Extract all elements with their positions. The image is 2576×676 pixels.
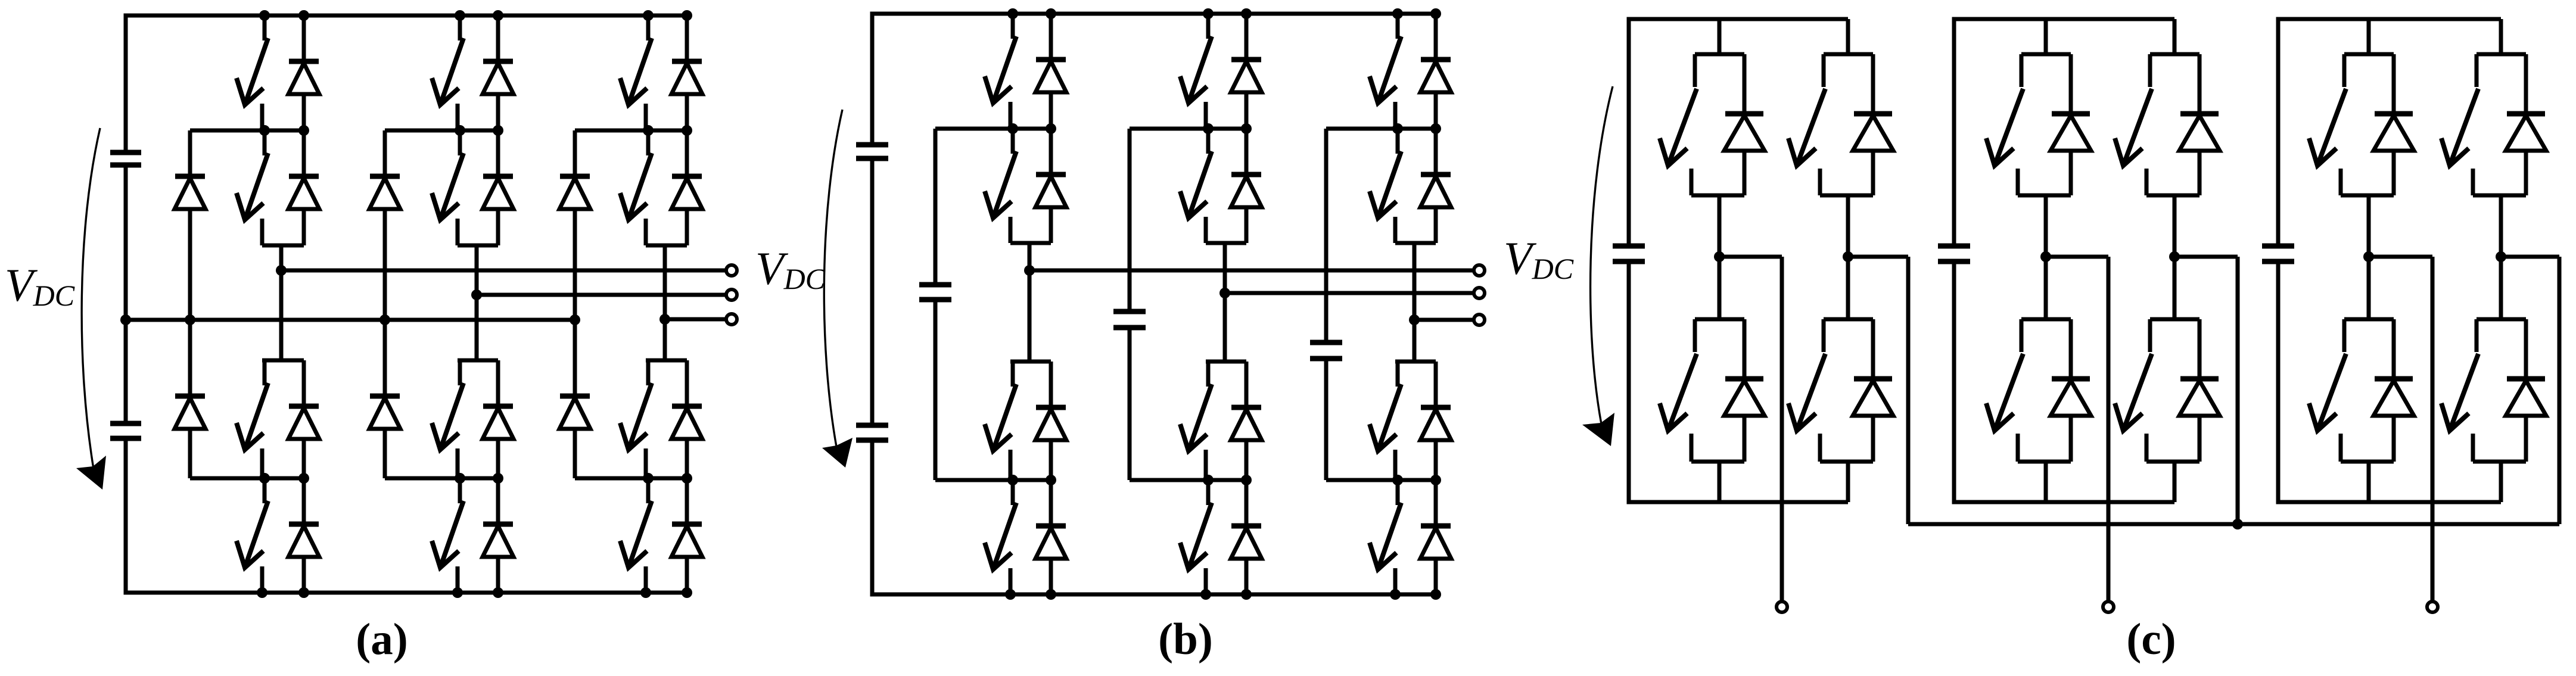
diode DFC2 (b, antiparallel to QC2) xyxy=(1420,129,1451,243)
wire: (c) module 3 leg A upper cell top cup xyxy=(2344,52,2394,57)
clamp diode DA5 (a leg A upper clamp) xyxy=(175,130,206,320)
wire: (c) module 1 leg B bottom stub xyxy=(1846,462,1850,502)
wire: (a) leg C phase column xyxy=(663,245,667,360)
wire: (c) module 3 leg B lower cell top cup xyxy=(2477,317,2526,322)
wire: (a) leg C lower cell top cup xyxy=(646,359,687,363)
node: (a) neutral tap leg C xyxy=(570,314,580,325)
node: (a) leg C top rail tap (switch col) xyxy=(643,10,654,21)
diode DB3 (a, antiparallel to SB3) xyxy=(483,360,514,478)
node: (b) leg B upper junction (diode col) xyxy=(1241,123,1252,134)
wire: (a) phase C output line xyxy=(665,317,725,322)
wire: (c) module 3 leg A bottom stub xyxy=(2367,462,2371,502)
wire: (c) module 2 leg A upper cell top cup xyxy=(2021,52,2071,57)
wire: (b) leg B upper cell bottom cup xyxy=(1206,241,1246,245)
diode DC3 (a, antiparallel to SC3) xyxy=(671,360,702,478)
switch QA1 (b leg A outer upper) xyxy=(985,14,1016,129)
wire: (c) module 3 leg B upper cell top cup xyxy=(2477,52,2526,57)
wire: (c) module 3 top rail xyxy=(2278,17,2501,21)
wire: panel (a) bottom DC rail xyxy=(126,591,687,595)
wire: (c) module 1 leg A bottom stub xyxy=(1718,462,1722,502)
switch T2B1 (c module 2 leg B upper) xyxy=(2115,54,2152,195)
node: (b) leg C lower junction (switch col) xyxy=(1392,475,1403,485)
node: (b) leg B lower junction (switch col) xyxy=(1203,475,1214,485)
wire: (c) module 1 leg A lower cell bottom cup xyxy=(1691,460,1744,464)
switch SB1 (a leg B outer upper) xyxy=(432,15,463,130)
node: (b) phase B output node xyxy=(1219,288,1230,298)
diode DH1A1 (c, antiparallel to T1A1) xyxy=(1724,54,1765,195)
node: (a) leg B SB3-SB4 junction (diode col) xyxy=(493,473,503,484)
node: neutral at left DC bus (a) xyxy=(120,314,131,325)
wire: (c) module 3 return vertical xyxy=(2558,257,2562,524)
node: (b) leg C bottom rail tap (switch col) xyxy=(1390,589,1401,600)
switch SA2 (a leg A inner upper) xyxy=(237,130,268,245)
diode DA1 (a, antiparallel to SA1) xyxy=(288,15,319,130)
diode DH2B2 (c, antiparallel to T2B2) xyxy=(2179,319,2220,462)
VDC arrow (b) xyxy=(822,110,853,468)
wire: (c) module 3 leg A top stub xyxy=(2367,19,2371,54)
node: (c) module 1 leg A midpoint xyxy=(1714,251,1725,262)
terminal: phase A output (c) xyxy=(1777,602,1787,612)
wire: (c) module 1 left rail lower segment xyxy=(1627,261,1631,504)
node: (b) phase C output node xyxy=(1409,314,1420,325)
switch SB3 (a leg B inner lower) xyxy=(432,360,463,478)
diode DFB1 (b, antiparallel to QB1) xyxy=(1231,14,1262,129)
node: (a) phase A output node xyxy=(276,265,287,276)
node: (a) leg C bottom rail tap (diode col) xyxy=(682,587,692,598)
node: (b) leg A lower junction (switch col) xyxy=(1007,475,1018,485)
node: (a) leg C SC1-SC2 junction (diode col) xyxy=(682,125,692,136)
diode DFB4 (b, antiparallel to QB4) xyxy=(1231,480,1262,594)
node: (a) neutral tap leg A xyxy=(185,314,195,325)
diode DFA1 (b, antiparallel to QA1) xyxy=(1035,14,1066,129)
wire: (c) module 2 leg B top stub xyxy=(2173,19,2177,54)
node: (a) phase B output node xyxy=(471,289,482,300)
flying capacitor CFA (b leg A) xyxy=(919,285,951,300)
diode DH1B2 (c, antiparallel to T1B2) xyxy=(1853,319,1893,462)
wire: (c) module 2 bottom rail xyxy=(1954,500,2174,504)
wire: (c) module 3 leg A lower cell top cup xyxy=(2344,317,2394,322)
switch SB2 (a leg B inner upper) xyxy=(432,130,463,245)
switch SC2 (a leg C inner upper) xyxy=(620,130,652,245)
wire: (c) module 2 leg B mid column xyxy=(2173,195,2177,319)
diode DH2A2 (c, antiparallel to T2A2) xyxy=(2051,319,2091,462)
wire: (c) module 1 leg B mid column xyxy=(1846,195,1850,319)
diode DC4 (a, antiparallel to SC4) xyxy=(671,478,702,593)
wire: (c) module 3 return tap horizontal xyxy=(2501,255,2559,259)
wire: (b) leg A lower cell top cup xyxy=(1010,360,1051,364)
clamp diode DB6 (a leg B lower clamp) xyxy=(369,320,400,478)
switch T3B1 (c module 3 leg B upper) xyxy=(2441,54,2478,195)
node: (b) leg C upper junction (switch col) xyxy=(1392,123,1403,134)
node: (a) leg A SA1-SA2 junction (switch col) xyxy=(259,125,270,136)
node: (b) leg C upper junction (diode col) xyxy=(1430,123,1441,134)
diode DB4 (a, antiparallel to SB4) xyxy=(483,478,514,593)
wire: (c) module 3 leg B top stub xyxy=(2499,19,2503,54)
node: (b) leg B bottom rail tap (switch col) xyxy=(1200,589,1211,600)
node: (a) leg C SC3-SC4 junction (switch col) xyxy=(643,473,654,484)
switch SC1 (a leg C outer upper) xyxy=(620,15,652,130)
wire: panel (a) left DC bus middle segment xyxy=(124,165,128,423)
wire: (a) leg A lower junction link xyxy=(190,476,304,481)
wire: (b) phase A output line xyxy=(1029,269,1473,273)
wire: (c) module 1 leg B lower cell top cup xyxy=(1824,317,1873,322)
wire: (b) leg A upper junction link xyxy=(935,127,1051,131)
VDC arrow (a) xyxy=(76,128,106,490)
diode DC1 (a, antiparallel to SC1) xyxy=(671,15,702,130)
wire: (c) module 3 left rail upper segment xyxy=(2276,17,2281,247)
diode DFB2 (b, antiparallel to QB2) xyxy=(1231,129,1262,243)
wire: (a) leg B upper junction link xyxy=(385,129,498,133)
wire: (c) module 1 left rail upper segment xyxy=(1627,17,1631,247)
diode DFA4 (b, antiparallel to QA4) xyxy=(1035,480,1066,594)
wire: (c) module 2 leg B upper cell bottom cup xyxy=(2146,194,2199,198)
wire: (b) leg B upper junction link xyxy=(1130,127,1246,131)
svg-text:(c): (c) xyxy=(2126,615,2176,664)
node: (b) leg B top rail tap (switch col) xyxy=(1203,8,1214,19)
node: (a) leg B SB3-SB4 junction (switch col) xyxy=(455,473,465,484)
wire: (c) module 1 leg B top stub xyxy=(1846,19,1850,54)
switch T2B2 (c module 2 leg B lower) xyxy=(2115,319,2152,462)
wire: (a) leg B lower cell top cup xyxy=(458,359,498,363)
wire: (a) leg A lower cell top cup xyxy=(262,359,304,363)
switch QA3 (b leg A inner lower) xyxy=(985,362,1016,480)
node: (b) leg A bottom rail tap (diode col) xyxy=(1046,589,1056,600)
wire: (c) module 2 leg A lower cell top cup xyxy=(2021,317,2071,322)
capacitor C4 (b, lower DC-link) xyxy=(856,425,888,440)
wire: (b) leg B flying-capacitor branch upper segment xyxy=(1128,129,1132,311)
wire: (a) leg C upper junction link xyxy=(575,129,687,133)
clamp diode DA6 (a leg A lower clamp) xyxy=(175,320,206,478)
wire: (c) module 2 leg B lower cell top cup xyxy=(2150,317,2199,322)
wire: (c) module 3 leg A upper cell bottom cup xyxy=(2341,194,2394,198)
wire: (c) module 1 leg B upper cell bottom cup xyxy=(1820,194,1873,198)
wire: (c) module 1 top rail xyxy=(1629,17,1848,21)
wire: (c) module 1 output tap horizontal xyxy=(1719,255,1782,259)
wire: panel (b) left DC bus middle segment xyxy=(870,158,875,425)
wire: (c) module 2 leg A upper cell bottom cup xyxy=(2018,194,2071,198)
wire: (b) leg C flying-capacitor branch upper segment xyxy=(1324,129,1329,342)
wire: (c) module 2 output vertical xyxy=(2107,257,2111,600)
wire: (c) module 2 top rail xyxy=(1954,17,2174,21)
node: (b) leg A upper junction (diode col) xyxy=(1046,123,1056,134)
node: (b) leg B bottom rail tap (diode col) xyxy=(1241,589,1252,600)
node: (b) leg B upper junction (switch col) xyxy=(1203,123,1214,134)
switch SA4 (a leg A outer lower) xyxy=(237,478,268,593)
wire: (c) module 3 leg B lower cell bottom cup xyxy=(2473,460,2526,464)
node: (a) neutral tap leg B xyxy=(379,314,390,325)
node: (a) leg C top rail tap (diode col) xyxy=(682,10,692,21)
diode DC2 (a, antiparallel to SC2) xyxy=(671,130,702,245)
diode DH3A2 (c, antiparallel to T3A2) xyxy=(2373,319,2414,462)
node: (a) leg A bottom rail tap (diode col) xyxy=(298,587,309,598)
switch SB4 (a leg B outer lower) xyxy=(432,478,463,593)
svg-text:(b): (b) xyxy=(1158,615,1213,664)
wire: (c) module 3 output vertical xyxy=(2431,257,2435,600)
clamp diode DC6 (a leg C lower clamp) xyxy=(559,320,590,478)
node: (b) leg C bottom rail tap (diode col) xyxy=(1430,589,1441,600)
capacitor CH3 (c module 3 DC-link) xyxy=(2262,246,2294,261)
switch T3A2 (c module 3 leg A lower) xyxy=(2309,319,2346,462)
wire: (b) leg A phase column xyxy=(1028,243,1032,362)
node: (b) leg A top rail tap (diode col) xyxy=(1046,8,1056,19)
terminal: phase A output (b) xyxy=(1474,265,1485,276)
flying capacitor CFB (b leg B) xyxy=(1113,311,1146,328)
switch T3A1 (c module 3 leg A upper) xyxy=(2309,54,2346,195)
terminal: phase C output (b) xyxy=(1474,314,1485,325)
diode DA3 (a, antiparallel to SA3) xyxy=(288,360,319,478)
terminal: phase B output (a) xyxy=(726,289,737,300)
node: (a) leg A SA3-SA4 junction (diode col) xyxy=(298,473,309,484)
diode DFB3 (b, antiparallel to QB3) xyxy=(1231,362,1262,480)
node: (b) leg A upper junction (switch col) xyxy=(1007,123,1018,134)
wire: (b) leg A flying-capacitor branch upper segment xyxy=(934,129,938,285)
switch T1A2 (c module 1 leg A lower) xyxy=(1660,319,1697,462)
wire: (c) module 1 leg A mid column xyxy=(1718,195,1722,319)
diode DFA2 (b, antiparallel to QA2) xyxy=(1035,129,1066,243)
switch T3B2 (c module 3 leg B lower) xyxy=(2441,319,2478,462)
terminal: phase B output (c) xyxy=(2103,602,2114,612)
switch T2A2 (c module 2 leg A lower) xyxy=(1986,319,2023,462)
switch QA4 (b leg A outer lower) xyxy=(985,480,1016,594)
wire: (b) leg B phase column xyxy=(1223,243,1227,362)
diode DH3A1 (c, antiparallel to T3A1) xyxy=(2373,54,2414,195)
wire: (c) module 3 leg B upper cell bottom cup xyxy=(2473,194,2526,198)
diode DFC4 (b, antiparallel to QC4) xyxy=(1420,480,1451,594)
wire: (b) leg A lower junction link xyxy=(935,478,1051,482)
node: (a) leg C SC1-SC2 junction (switch col) xyxy=(643,125,654,136)
wire: (a) phase A output line xyxy=(281,269,725,273)
wire: (b) leg C flying-capacitor branch lower segment xyxy=(1324,359,1329,480)
wire: panel (b) bottom DC rail xyxy=(872,593,1436,597)
wire: (c) module 3 leg B mid column xyxy=(2499,195,2503,319)
wire: (c) module 2 left rail upper segment xyxy=(1952,17,1956,247)
wire: panel (b) top DC rail xyxy=(872,12,1436,16)
wire: (c) module 1 return vertical xyxy=(1906,257,1911,524)
wire: (c) module 2 leg A lower cell bottom cup xyxy=(2018,460,2071,464)
svg-text:(a): (a) xyxy=(356,615,407,664)
switch QB4 (b leg B outer lower) xyxy=(1180,480,1212,594)
node: (a) leg A SA3-SA4 junction (switch col) xyxy=(259,473,270,484)
node: (a) leg C SC3-SC4 junction (diode col) xyxy=(682,473,692,484)
wire: (b) leg B lower cell top cup xyxy=(1206,360,1246,364)
switch QB1 (b leg B outer upper) xyxy=(1180,14,1212,129)
wire: (c) module 2 return tap horizontal xyxy=(2174,255,2238,259)
wire: (b) leg A flying-capacitor branch lower segment xyxy=(934,300,938,480)
wire: (c) module 1 leg A upper cell bottom cup xyxy=(1691,194,1744,198)
terminal: phase C output (c) xyxy=(2427,602,2438,612)
node: (a) leg B SB1-SB2 junction (switch col) xyxy=(455,125,465,136)
wire: (b) leg B flying-capacitor branch lower segment xyxy=(1128,328,1132,480)
wire: (a) leg A upper cell bottom cup xyxy=(262,244,304,248)
node: (a) leg A top rail tap (switch col) xyxy=(259,10,270,21)
diode DA4 (a, antiparallel to SA4) xyxy=(288,478,319,593)
wire: (c) module 1 leg A top stub xyxy=(1718,19,1722,54)
node: (a) leg A bottom rail tap (switch col) xyxy=(257,587,267,598)
switch T1B1 (c module 1 leg B upper) xyxy=(1788,54,1825,195)
switch QB2 (b leg B inner upper) xyxy=(1180,129,1212,243)
wire: (c) module 3 bottom rail xyxy=(2278,500,2501,504)
wire: (a) leg A upper junction link xyxy=(190,129,304,133)
wire: (b) leg C upper junction link xyxy=(1326,127,1436,131)
wire: (a) leg B upper cell bottom cup xyxy=(458,244,498,248)
diode DH2A1 (c, antiparallel to T2A1) xyxy=(2051,54,2091,195)
switch SA1 (a leg A outer upper) xyxy=(237,15,268,130)
wire: (c) module 1 leg B upper cell top cup xyxy=(1824,52,1873,57)
clamp diode DC5 (a leg C upper clamp) xyxy=(559,130,590,320)
node: (a) leg B top rail tap (diode col) xyxy=(493,10,503,21)
node: (a) leg B SB1-SB2 junction (diode col) xyxy=(493,125,503,136)
diode DH1A2 (c, antiparallel to T1A2) xyxy=(1724,319,1765,462)
wire: (c) module 2 return vertical xyxy=(2236,257,2240,524)
wire: panel (a) left DC bus lower segment xyxy=(124,438,128,595)
switch QB3 (b leg B inner lower) xyxy=(1180,362,1212,480)
wire: (b) leg B lower junction link xyxy=(1130,478,1246,482)
diode DH2B1 (c, antiparallel to T2B1) xyxy=(2179,54,2220,195)
terminal: phase C output (a) xyxy=(726,314,737,325)
wire: (c) module 2 leg A top stub xyxy=(2044,19,2048,54)
wire: (c) module 2 leg A bottom stub xyxy=(2044,462,2048,502)
wire: (c) module 2 leg A mid column xyxy=(2044,195,2048,319)
diode DH1B1 (c, antiparallel to T1B1) xyxy=(1853,54,1893,195)
wire: (c) module 3 output tap horizontal xyxy=(2369,255,2432,259)
node: (b) leg C lower junction (diode col) xyxy=(1430,475,1441,485)
wire: (c) common return bus xyxy=(1908,522,2559,527)
diode DB2 (a, antiparallel to SB2) xyxy=(483,130,514,245)
wire: (a) phase B output line xyxy=(477,293,725,297)
wire: (c) module 1 return tap horizontal xyxy=(1848,255,1908,259)
node: (a) phase C output node xyxy=(659,314,670,325)
capacitor C2 (a, lower DC-link) xyxy=(110,423,141,438)
capacitor C3 (b, upper DC-link) xyxy=(856,145,888,158)
diode DA2 (a, antiparallel to SA2) xyxy=(288,130,319,245)
wire: (c) module 1 leg B lower cell bottom cup xyxy=(1820,460,1873,464)
capacitor CH2 (c module 2 DC-link) xyxy=(1938,246,1970,261)
wire: (b) phase B output line xyxy=(1225,291,1473,295)
wire: panel (a) top DC rail xyxy=(126,14,687,18)
wire: (a) leg B lower junction link xyxy=(385,476,498,481)
node: (c) module 2 leg B midpoint xyxy=(2169,251,2180,262)
diode DB1 (a, antiparallel to SB1) xyxy=(483,15,514,130)
node: (c) module 3 leg A midpoint xyxy=(2363,251,2374,262)
node: (b) leg A lower junction (diode col) xyxy=(1046,475,1056,485)
wire: (c) module 2 leg B lower cell bottom cup xyxy=(2146,460,2199,464)
wire: (c) module 2 output tap horizontal xyxy=(2046,255,2108,259)
wire: (b) leg C phase column xyxy=(1413,243,1417,362)
switch QC1 (b leg C outer upper) xyxy=(1370,14,1401,129)
wire: (c) module 1 bottom rail xyxy=(1629,500,1848,504)
switch SA3 (a leg A inner lower) xyxy=(237,360,268,478)
switch QC3 (b leg C inner lower) xyxy=(1370,362,1401,480)
node: (c) module 1 leg B midpoint xyxy=(1843,251,1853,262)
terminal: phase A output (a) xyxy=(726,265,737,276)
node: (c) return bus junction module 2 xyxy=(2232,519,2243,529)
VDC arrow (c) xyxy=(1582,86,1614,446)
switch SC3 (a leg C inner lower) xyxy=(620,360,652,478)
node: (a) leg B bottom rail tap (diode col) xyxy=(493,587,503,598)
wire: (b) leg C upper cell bottom cup xyxy=(1395,241,1436,245)
flying capacitor CFC (b leg C) xyxy=(1310,342,1342,359)
wire: (c) module 1 leg A lower cell top cup xyxy=(1695,317,1744,322)
wire: (b) phase C output line xyxy=(1414,318,1473,322)
diode DFC3 (b, antiparallel to QC3) xyxy=(1420,362,1451,480)
wire: panel (a) neutral rail xyxy=(126,318,575,322)
node: (b) leg B lower junction (diode col) xyxy=(1241,475,1252,485)
clamp diode DB5 (a leg B upper clamp) xyxy=(369,130,400,320)
node: (a) leg B top rail tap (switch col) xyxy=(455,10,465,21)
node: (a) leg A SA1-SA2 junction (diode col) xyxy=(298,125,309,136)
wire: (a) leg B phase column xyxy=(475,245,479,360)
diode DFC1 (b, antiparallel to QC1) xyxy=(1420,14,1451,129)
wire: (b) leg C lower junction link xyxy=(1326,478,1436,482)
capacitor CH1 (c module 1 DC-link) xyxy=(1613,246,1645,261)
wire: (c) module 1 leg A upper cell top cup xyxy=(1695,52,1744,57)
node: (a) leg C bottom rail tap (switch col) xyxy=(640,587,651,598)
node: (a) leg B bottom rail tap (switch col) xyxy=(452,587,463,598)
switch SC4 (a leg C outer lower) xyxy=(620,478,652,593)
wire: (c) module 2 leg B upper cell top cup xyxy=(2150,52,2199,57)
node: (b) leg B top rail tap (diode col) xyxy=(1241,8,1252,19)
switch T1B2 (c module 1 leg B lower) xyxy=(1788,319,1825,462)
wire: (a) leg C upper cell bottom cup xyxy=(646,244,687,248)
wire: (c) module 1 output vertical xyxy=(1780,257,1784,600)
wire: (c) module 2 leg B bottom stub xyxy=(2173,462,2177,502)
diode DFA3 (b, antiparallel to QA3) xyxy=(1035,362,1066,480)
wire: (a) leg A phase column xyxy=(279,245,284,360)
switch T2A1 (c module 2 leg A upper) xyxy=(1986,54,2023,195)
capacitor C1 (a, upper DC-link) xyxy=(110,152,141,165)
switch T1A1 (c module 1 leg A upper) xyxy=(1660,54,1697,195)
wire: (c) module 3 leg A lower cell bottom cup xyxy=(2341,460,2394,464)
wire: panel (b) left DC bus upper segment xyxy=(870,12,875,145)
wire: (c) module 3 leg A mid column xyxy=(2367,195,2371,319)
terminal: phase B output (b) xyxy=(1474,288,1485,298)
node: (c) module 2 leg A midpoint xyxy=(2040,251,2051,262)
switch QA2 (b leg A inner upper) xyxy=(985,129,1016,243)
node: (b) leg C top rail tap (switch col) xyxy=(1392,8,1403,19)
wire: (b) leg A upper cell bottom cup xyxy=(1010,241,1051,245)
wire: (a) leg C lower junction link xyxy=(575,476,687,481)
wire: panel (a) left DC bus upper segment xyxy=(124,14,128,153)
diode DH3B2 (c, antiparallel to T3B2) xyxy=(2506,319,2546,462)
wire: panel (b) left DC bus lower segment xyxy=(870,440,875,597)
wire: (c) module 3 left rail lower segment xyxy=(2276,261,2281,504)
diode DH3B1 (c, antiparallel to T3B1) xyxy=(2506,54,2546,195)
node: (a) leg A top rail tap (diode col) xyxy=(298,10,309,21)
wire: (c) module 3 leg B bottom stub xyxy=(2499,462,2503,502)
node: (b) leg C top rail tap (diode col) xyxy=(1430,8,1441,19)
switch QC2 (b leg C inner upper) xyxy=(1370,129,1401,243)
switch QC4 (b leg C outer lower) xyxy=(1370,480,1401,594)
node: (c) module 3 leg B midpoint xyxy=(2496,251,2506,262)
wire: (c) module 2 left rail lower segment xyxy=(1952,261,1956,504)
node: (b) phase A output node xyxy=(1024,265,1035,276)
node: (b) leg A bottom rail tap (switch col) xyxy=(1005,589,1016,600)
wire: (b) leg C lower cell top cup xyxy=(1395,360,1436,364)
node: (b) leg A top rail tap (switch col) xyxy=(1007,8,1018,19)
